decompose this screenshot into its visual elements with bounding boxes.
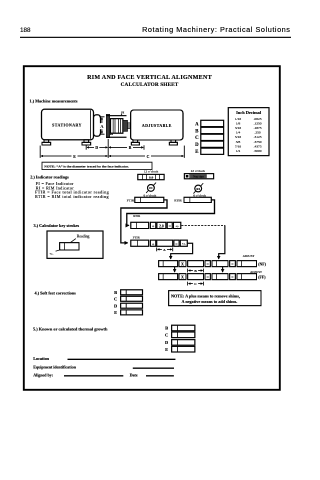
svg-text:D: D	[165, 340, 168, 345]
svg-text:FI: FI	[149, 186, 153, 190]
svg-text:NOTE: “A” is the diameter trac: NOTE: “A” is the diameter traced by the …	[44, 163, 129, 168]
wire: result pass-through to row 4 left	[174, 267, 176, 272]
svg-text:2.0: 2.0	[159, 225, 164, 229]
svg-text:A: A	[195, 122, 199, 127]
svg-text:4.) Soft feet corrections: 4.) Soft feet corrections	[35, 291, 77, 296]
coupling hub	[111, 119, 123, 134]
svg-text:1/2: 1/2	[236, 149, 241, 153]
header rule	[20, 36, 291, 38]
stationary machine body	[42, 109, 94, 140]
svg-text:.1875: .1875	[254, 126, 262, 130]
svg-text:Neg sign: Neg sign	[193, 175, 204, 179]
svg-text:E: E	[165, 347, 168, 352]
svg-text:.0625: .0625	[254, 117, 262, 121]
rim indicator dial RI	[195, 185, 202, 192]
svg-text:Inch Decimal: Inch Decimal	[236, 110, 262, 115]
dimension A (face indicator diameter)	[101, 118, 103, 123]
svg-text:12 o’clock: 12 o’clock	[144, 170, 159, 174]
wire: row 2 result down to row 3	[171, 243, 193, 259]
svg-text:A negative means to add shims.: A negative means to add shims.	[182, 299, 238, 304]
svg-text:3.) Calculator key strokes: 3.) Calculator key strokes	[34, 223, 80, 228]
wire: result pass-through to row 4 right	[222, 267, 224, 272]
wire: row 1 result (dashed)	[181, 224, 225, 226]
wire: row 1 result down to row 3	[219, 225, 225, 259]
svg-text:3/8: 3/8	[236, 140, 241, 144]
svg-text:ADJUST: ADJUST	[243, 254, 255, 258]
dimension extension lines	[85, 145, 87, 149]
svg-text:C: C	[165, 332, 168, 337]
svg-text:Date: Date	[130, 372, 138, 377]
svg-text:E: E	[195, 150, 198, 155]
indicator bracket bars	[106, 115, 126, 117]
svg-text:B: B	[114, 290, 117, 295]
note: face indicator diameter	[42, 162, 152, 169]
note: shim meaning	[169, 291, 261, 306]
face indicator dial FI	[148, 185, 155, 192]
dimension marker C under row 4	[187, 282, 189, 286]
svg-text:=: =	[169, 224, 172, 229]
adjustable machine body	[131, 110, 183, 140]
svg-text:D: D	[95, 146, 98, 150]
svg-text:3/16: 3/16	[235, 126, 241, 130]
svg-text:=: =	[175, 241, 178, 246]
coupling left flange	[106, 114, 109, 137]
svg-text:7/16: 7/16	[235, 144, 241, 148]
svg-text:5.) Known or calculated therma: 5.) Known or calculated thermal growth	[33, 327, 108, 332]
svg-text:E: E	[114, 310, 117, 315]
svg-text:÷: ÷	[152, 242, 155, 247]
svg-text:X: X	[181, 262, 184, 267]
svg-text:5/16: 5/16	[235, 135, 241, 139]
svg-text:Reading: Reading	[77, 235, 90, 239]
svg-text:÷: ÷	[152, 224, 155, 229]
svg-text:B: B	[195, 129, 199, 134]
svg-text:CALCULATOR SHEET: CALCULATOR SHEET	[121, 82, 179, 88]
svg-text:1.) Machine measurements: 1.) Machine measurements	[30, 99, 78, 104]
svg-text:C: C	[147, 155, 150, 159]
dimension D	[87, 146, 94, 148]
svg-text:RTIR: RTIR	[133, 214, 141, 218]
stationary shaft end	[94, 115, 101, 136]
svg-text:(FF): (FF)	[258, 276, 266, 280]
svg-text:.4375: .4375	[254, 144, 262, 148]
svg-text:(NF): (NF)	[258, 263, 266, 267]
svg-text:RTIR = RIM total indicator rea: RTIR = RIM total indicator reading	[35, 194, 109, 199]
svg-text:STATIONARY: STATIONARY	[52, 124, 82, 128]
svg-text:A: A	[163, 248, 166, 252]
svg-text:Aligned by:: Aligned by:	[33, 372, 53, 377]
svg-text:RIM AND FACE VERTICAL ALIGNMEN: RIM AND FACE VERTICAL ALIGNMENT	[87, 75, 212, 81]
stationary machine feet	[44, 140, 49, 143]
svg-text:=: =	[231, 274, 234, 279]
keystroke row 3: near feet correction	[159, 261, 178, 267]
dimension marker A under row 2	[156, 248, 158, 252]
keystroke legend box	[47, 231, 103, 258]
svg-text:Location: Location	[33, 356, 49, 361]
wire: FTIR to keystroke row 2	[121, 200, 167, 243]
svg-text:+/-: +/-	[49, 252, 53, 256]
svg-text:B: B	[129, 146, 132, 150]
dimension B	[109, 146, 127, 148]
svg-text:D: D	[195, 143, 199, 148]
svg-text:Rotating Machinery: Practical: Rotating Machinery: Practical Solutions	[142, 25, 290, 34]
svg-text:C: C	[195, 136, 199, 141]
svg-text:=: =	[207, 274, 210, 279]
svg-text:+/-: +/-	[175, 224, 179, 228]
svg-text:ADJUSTABLE: ADJUSTABLE	[142, 124, 172, 128]
svg-text:D: D	[114, 303, 117, 308]
dimension C	[109, 155, 145, 157]
svg-text:2.) Indicator readings: 2.) Indicator readings	[30, 174, 69, 179]
dimension E	[41, 155, 72, 157]
svg-text:NOTE: A plus means to remove s: NOTE: A plus means to remove shims,	[171, 293, 240, 298]
inch decimal conversion table	[228, 108, 269, 156]
svg-text:ADJUST: ADJUST	[250, 270, 262, 274]
svg-text:=: =	[231, 261, 234, 266]
rim dial 12 o'clock scale box	[184, 174, 213, 179]
svg-text:FTIR: FTIR	[127, 198, 135, 202]
svg-text:.1250: .1250	[254, 122, 262, 126]
main sheet border	[24, 66, 280, 390]
svg-text:.5000: .5000	[254, 149, 262, 153]
dimension marker B under row 3	[187, 269, 189, 273]
svg-text:B: B	[194, 269, 197, 273]
svg-text:0.0: 0.0	[149, 176, 154, 180]
svg-text:X: X	[181, 275, 184, 280]
keystroke row 4: far feet correction	[159, 274, 178, 280]
svg-text:1/16: 1/16	[235, 117, 241, 121]
svg-text:1/4: 1/4	[236, 131, 241, 135]
svg-text:C: C	[114, 296, 117, 301]
svg-text:Equipment identification: Equipment identification	[33, 365, 77, 370]
svg-text:.250: .250	[254, 131, 260, 135]
svg-text:1/8: 1/8	[236, 122, 241, 126]
svg-text:RTIR: RTIR	[174, 198, 182, 202]
svg-text:FTIR: FTIR	[133, 235, 141, 239]
adjustable machine feet	[133, 140, 138, 142]
svg-text:.3125: .3125	[254, 135, 262, 139]
face dial 12 o'clock scale box	[138, 174, 164, 179]
svg-text:12 o’clock: 12 o’clock	[191, 169, 206, 173]
svg-text:.3750: .3750	[254, 140, 262, 144]
svg-text:B: B	[165, 326, 168, 331]
coupling right flange	[123, 120, 128, 131]
coupling centerline extension	[107, 139, 109, 158]
adjustable shaft stub	[128, 123, 131, 129]
svg-text:+/-: +/-	[182, 242, 186, 246]
svg-text:E: E	[73, 155, 76, 159]
svg-text:C: C	[194, 282, 197, 286]
svg-text:=: =	[207, 261, 210, 266]
wire: RTIR to keystroke row 1	[127, 200, 215, 226]
svg-text:RI: RI	[196, 187, 200, 191]
svg-text:188: 188	[20, 27, 31, 34]
